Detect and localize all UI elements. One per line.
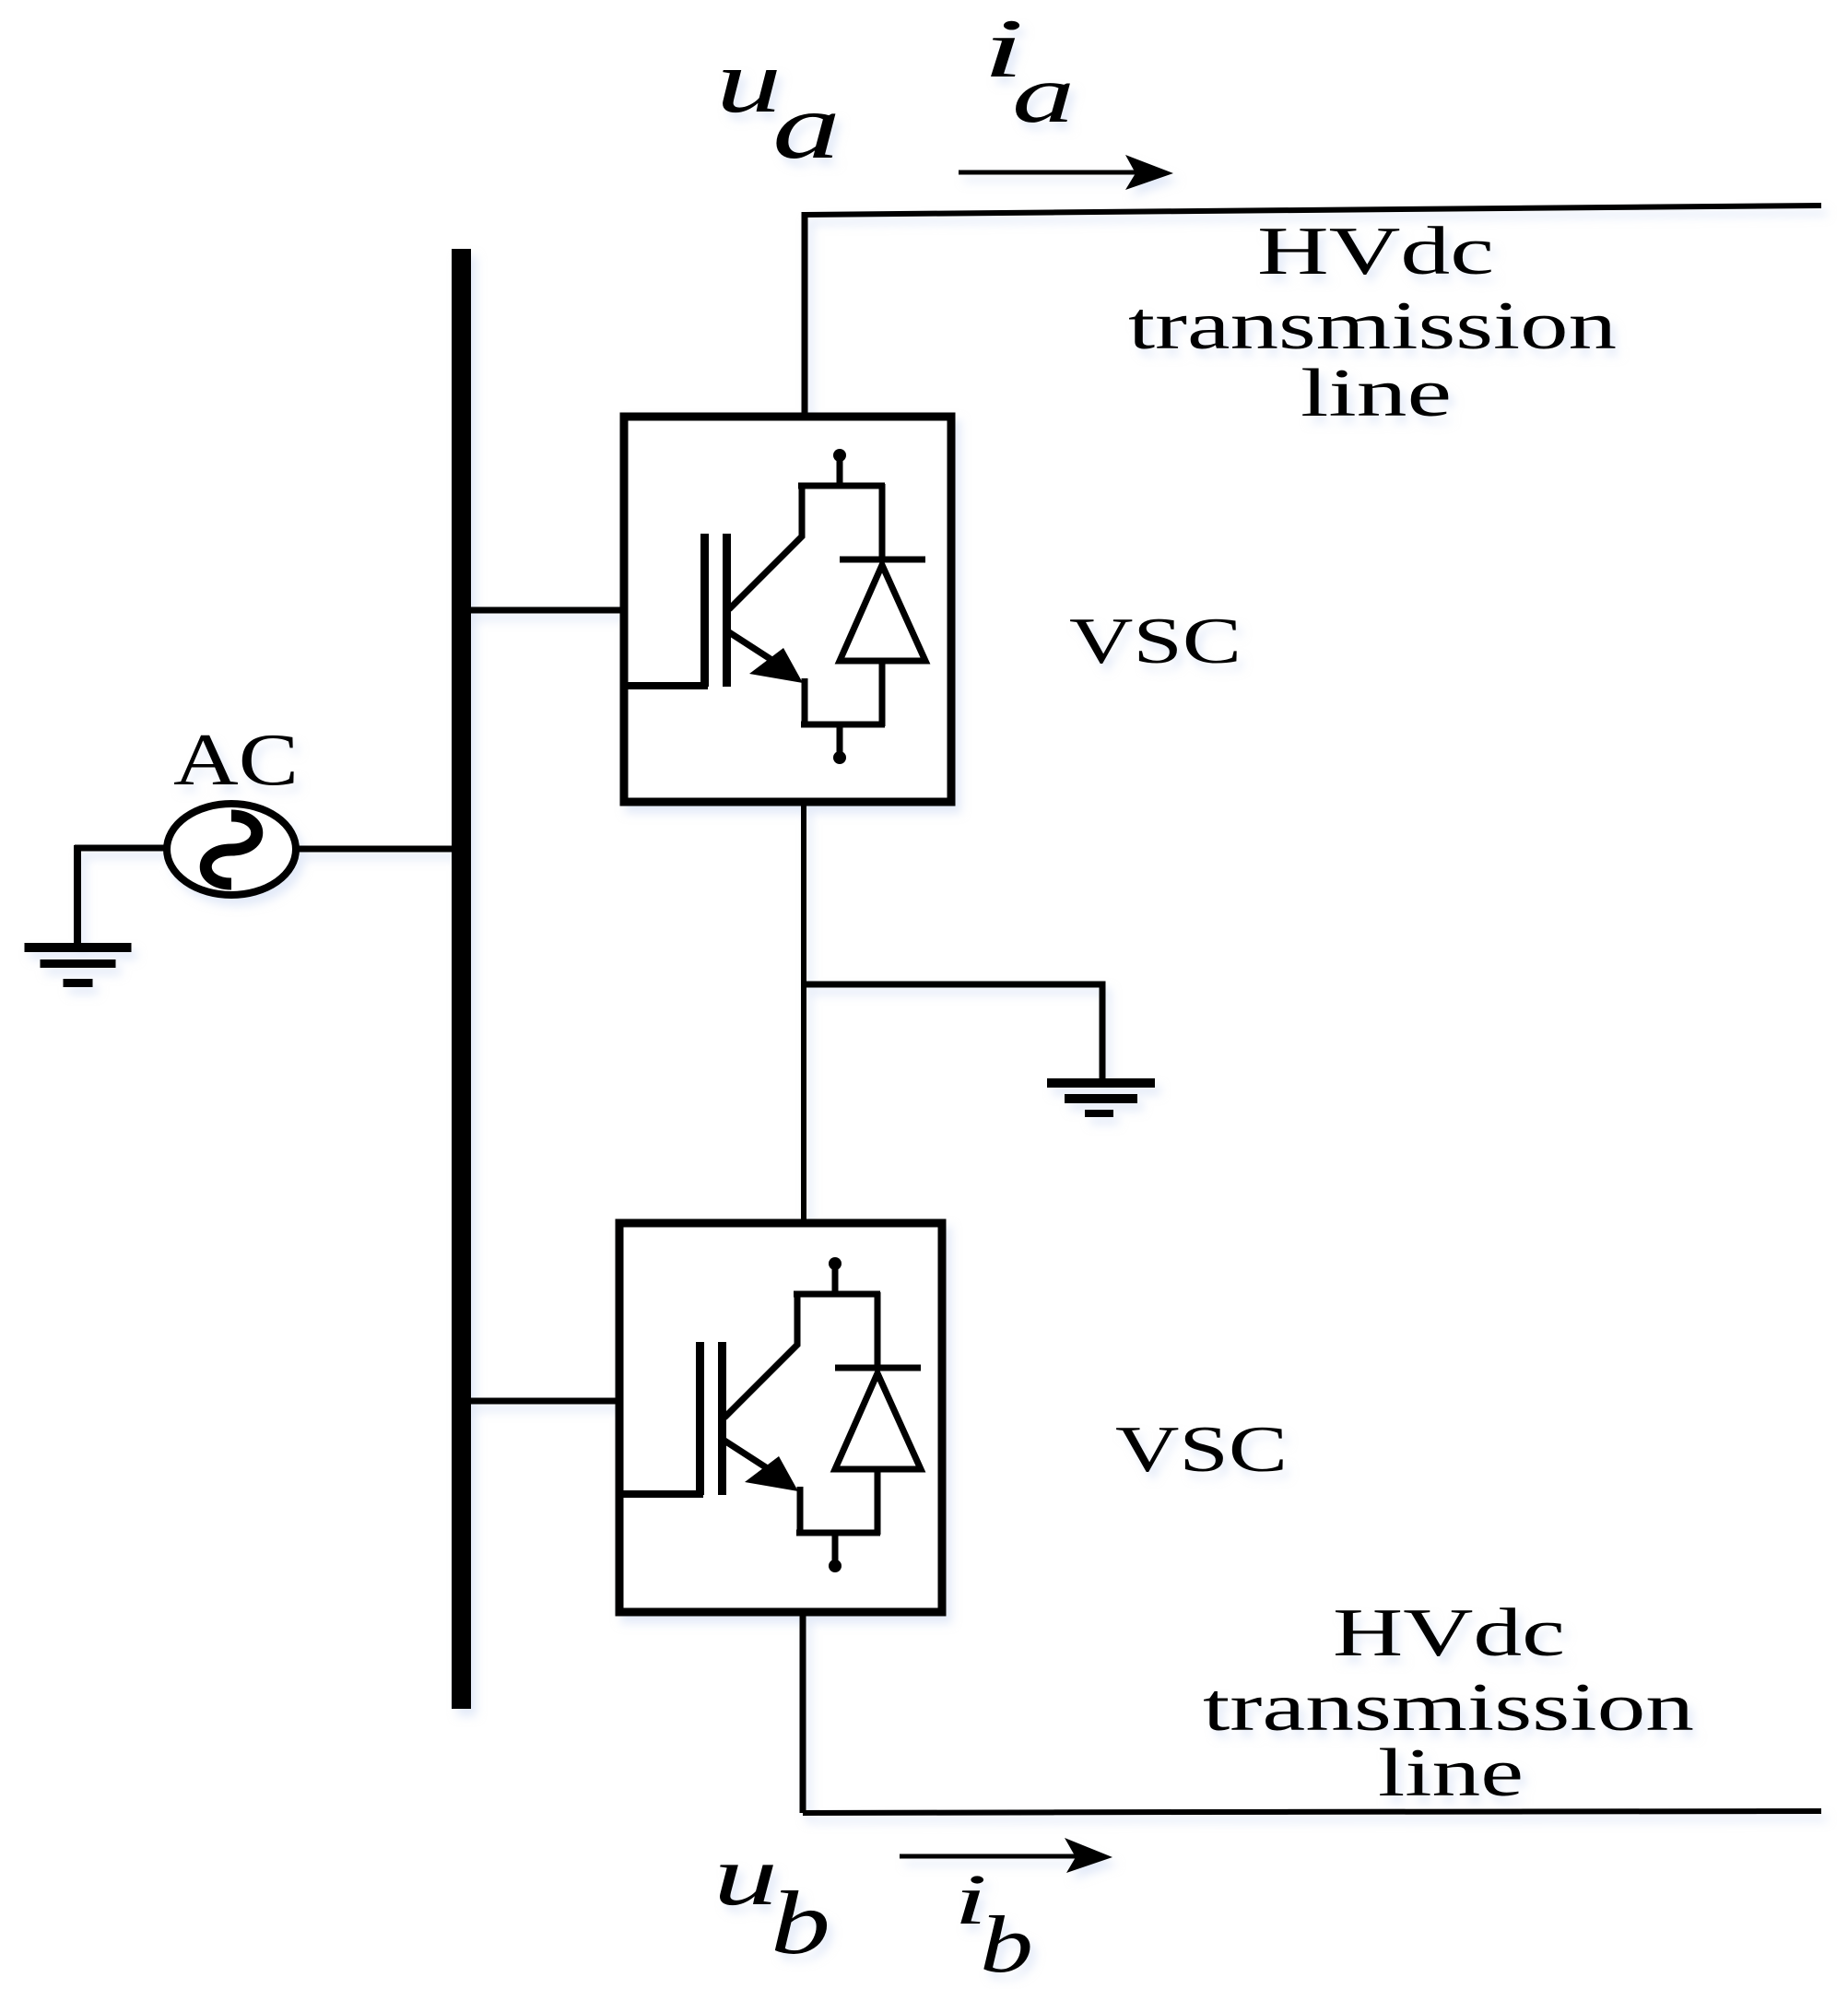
svg-text:transmission: transmission — [1203, 1670, 1694, 1746]
svg-text:line: line — [1378, 1736, 1524, 1811]
AC source V1 — [167, 804, 296, 895]
wire midpoint to ground — [804, 984, 1102, 1080]
arrow i_b — [900, 1854, 1078, 1859]
diode D2 — [835, 1292, 921, 1535]
svg-text:HVdc: HVdc — [1333, 1595, 1565, 1671]
wire bus to VSC2 — [471, 1398, 621, 1405]
wire HVdc line B (bottom) — [803, 1811, 1821, 1813]
svg-text:u: u — [713, 1829, 778, 1924]
svg-text:transmission: transmission — [1128, 288, 1617, 364]
svg-text:line: line — [1301, 356, 1452, 431]
svg-text:b: b — [771, 1874, 830, 1973]
transistor Q1 (IGBT) — [624, 449, 885, 764]
AC bus bar — [452, 249, 471, 1709]
svg-text:HVdc: HVdc — [1257, 214, 1494, 289]
svg-text:b: b — [980, 1901, 1033, 1989]
VSC1 box — [624, 417, 951, 802]
svg-text:AC: AC — [173, 720, 299, 801]
ground (right) — [1047, 1078, 1155, 1117]
ground (left) — [25, 943, 132, 987]
wire VSC2 down — [800, 1612, 806, 1813]
arrow i_a — [959, 171, 1138, 175]
wire AC left — [75, 845, 168, 852]
wire HVdc line A (top) — [805, 206, 1821, 215]
svg-text:a: a — [1012, 50, 1075, 140]
svg-text:a: a — [772, 75, 841, 179]
svg-text:VSC: VSC — [1069, 606, 1242, 677]
wire bus to VSC1 — [471, 607, 626, 614]
transistor Q2 (IGBT) — [619, 1257, 880, 1572]
svg-text:VSC: VSC — [1115, 1414, 1288, 1486]
wire VSC1 to VSC2 — [801, 802, 806, 1225]
wire AC to ground — [74, 845, 81, 946]
node ua: vertical wire to VSC1 — [802, 212, 808, 417]
wire AC to bus — [297, 846, 453, 853]
VSC2 box — [619, 1223, 942, 1612]
diode D1 — [840, 484, 925, 726]
